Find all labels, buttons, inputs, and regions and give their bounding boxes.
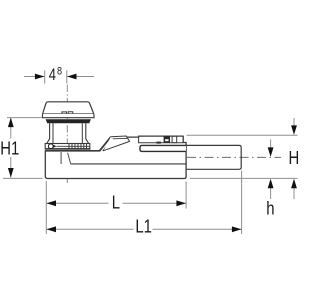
- dimension H upper arrow: [293, 118, 295, 131]
- neck inner wall left: [52, 123, 54, 143]
- dimension L1 arrow right: [232, 226, 242, 232]
- extension line top of body right (H top): [187, 134, 298, 136]
- nut knurling ticks: [69, 144, 87, 149]
- extension line L/L1 left: [45, 181, 47, 234]
- dimension L1 line: [46, 228, 133, 230]
- inner sleeve slot outline: [140, 145, 186, 151]
- body outline: [45, 136, 186, 178]
- dimension 48 arrow left: [67, 74, 77, 80]
- extension tick left of 48: [44, 70, 46, 83]
- flag fold line: [113, 137, 128, 139]
- dimension L1 arrow left: [47, 226, 57, 232]
- svg-text:H: H: [289, 148, 300, 169]
- svg-text:L: L: [112, 192, 120, 213]
- dimension 48 right line: [67, 76, 94, 78]
- nut bottom thick edge: [45, 148, 90, 150]
- dimension L arrow right: [176, 200, 186, 206]
- svg-text:4: 4: [49, 67, 56, 85]
- dimension 48 arrow right: [35, 74, 45, 80]
- dimension H lower arrow: [293, 188, 295, 199]
- dimension L line: [46, 202, 108, 204]
- slope edge thick: [99, 137, 110, 151]
- gasket black band under flange: [46, 119, 91, 123]
- svg-text:8: 8: [57, 66, 62, 78]
- extension line L1 right: [241, 171, 243, 235]
- slope flag quad: [104, 136, 130, 151]
- dimension H1 line: [10, 118, 12, 139]
- extension line L right: [185, 182, 187, 209]
- clamp rect B: [172, 136, 177, 142]
- inner channel bottom line: [71, 163, 186, 165]
- clamp tick left of square: [157, 142, 161, 144]
- neck inner wall right: [81, 123, 83, 143]
- centerline cross tick: [179, 153, 181, 162]
- vertical centerline of drain: [66, 85, 68, 184]
- svg-text:h: h: [266, 198, 274, 219]
- flange plate: [42, 114, 94, 118]
- svg-text:L1: L1: [135, 216, 152, 237]
- inner seat slant: [68, 153, 71, 164]
- nut mid line: [57, 145, 90, 147]
- extension line top of flange (H1 top): [7, 117, 42, 119]
- clamp square: [164, 136, 170, 143]
- extension line bottom of body left (H1 bottom): [3, 177, 43, 179]
- dimension h lower arrow: [270, 188, 272, 199]
- dimension h upper arrow: [270, 140, 272, 153]
- compression nut: [45, 144, 90, 150]
- clamp square inner slot: [165, 139, 169, 141]
- dimension H1 arrow down: [8, 168, 14, 178]
- inner wall vertical left: [60, 152, 62, 164]
- neck outer wall left: [47, 123, 50, 143]
- outlet pipe end: [239, 145, 241, 169]
- groove left vertical: [139, 136, 184, 143]
- neck outer wall right: [86, 123, 89, 143]
- extension tick right of 48 (centerline): [66, 70, 68, 83]
- slope inner parallel line: [103, 138, 114, 151]
- outlet pipe top: [186, 144, 239, 146]
- horizontal centerline of outlet pipe: [170, 156, 282, 158]
- cap grate trapezoid: [43, 102, 94, 114]
- dimension 48 left line: [24, 76, 44, 78]
- extension line bottom right (H/h bottom): [190, 177, 298, 179]
- outlet pipe bottom: [186, 168, 239, 170]
- dimension L arrow left: [47, 200, 57, 206]
- dimension H1 arrow up: [8, 118, 14, 128]
- cap lifting tab: [62, 112, 73, 114]
- body shoulder top edge thick: [45, 150, 100, 152]
- nut ball detail: [48, 144, 53, 149]
- svg-text:H1: H1: [0, 138, 19, 159]
